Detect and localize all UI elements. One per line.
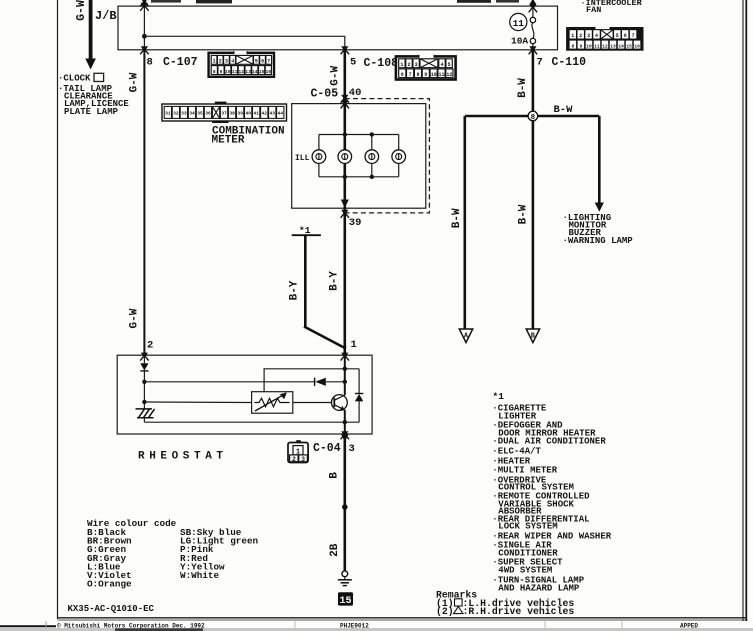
connector mark rheostat pin 3 [341, 431, 349, 439]
svg-text:31: 31 [165, 111, 171, 117]
connector mark x=144.4 top [140, 0, 148, 6]
svg-text:32: 32 [173, 111, 179, 117]
wire B-Y from *1 [304, 235, 307, 327]
svg-text:4: 4 [440, 62, 443, 68]
svg-text:11: 11 [513, 18, 525, 29]
svg-text:B-W: B-W [518, 204, 530, 224]
svg-text:2: 2 [292, 456, 296, 463]
ground symbol bottom [338, 571, 352, 586]
node dot splice [342, 504, 348, 510]
svg-text:13: 13 [610, 43, 616, 49]
combination meter dashed box (RH drive) [345, 99, 430, 213]
connector mark C-05 entry [341, 95, 349, 103]
svg-text:*1: *1 [299, 225, 311, 236]
svg-text:12: 12 [602, 43, 608, 49]
svg-text:C-05: C-05 [311, 88, 339, 101]
svg-text:41: 41 [253, 111, 259, 117]
svg-text:8: 8 [213, 69, 216, 75]
illumination bulb 4 [392, 150, 406, 164]
svg-text:C-107: C-107 [163, 56, 198, 69]
connector mark x=344.8 J/B bottom [341, 46, 349, 54]
svg-text:5: 5 [350, 57, 356, 69]
svg-text:B-W: B-W [517, 78, 529, 98]
rheostat box [117, 355, 372, 434]
page bottom border double [58, 617, 747, 619]
svg-text:7: 7 [267, 59, 270, 65]
svg-text:3: 3 [225, 59, 228, 65]
svg-text:16: 16 [266, 69, 272, 75]
top fragment block right [457, 0, 491, 3]
svg-text:KX35-AC-Q1010-EC: KX35-AC-Q1010-EC [68, 604, 155, 614]
connector mark rheostat pin 2 [140, 353, 148, 361]
svg-text:7: 7 [632, 33, 635, 39]
svg-text:C-110: C-110 [552, 56, 587, 69]
svg-text:9: 9 [580, 43, 583, 49]
svg-text:12: 12 [239, 69, 245, 75]
remarks square symbol [455, 599, 463, 606]
svg-text:AND HAZARD LAMP: AND HAZARD LAMP [498, 583, 580, 593]
bulb rail top [319, 134, 399, 136]
wire B below rheostat [343, 434, 346, 571]
svg-text:4: 4 [595, 33, 598, 39]
B-W distribution bar [465, 115, 600, 118]
svg-text:7: 7 [409, 72, 412, 78]
wire var-res output to transistor base [293, 402, 335, 404]
node dot J/B [142, 34, 147, 39]
wire lower internal to variable resistor [144, 401, 251, 404]
svg-text:3: 3 [587, 33, 590, 39]
resistor (hatched) to ground rail [136, 409, 155, 418]
remarks triangle symbol [454, 607, 463, 614]
svg-text:8: 8 [147, 57, 153, 69]
svg-text:2: 2 [407, 62, 410, 68]
svg-text:44: 44 [278, 111, 284, 117]
svg-text:36: 36 [205, 111, 211, 117]
svg-text:© Mitsubishi Motors Corporatio: © Mitsubishi Motors Corporation Dec. 199… [57, 622, 205, 629]
svg-text:11: 11 [438, 72, 444, 78]
diode D2 (left pointing) [314, 378, 316, 386]
svg-text:16: 16 [634, 43, 640, 49]
svg-text:13: 13 [245, 69, 251, 75]
splice circle 8 [528, 111, 538, 121]
node clock list [58, 74, 129, 117]
svg-text:39: 39 [349, 217, 362, 229]
svg-text:PHJE9012: PHJE9012 [340, 622, 369, 629]
svg-text:O:Orange: O:Orange [87, 579, 132, 590]
svg-text:1: 1 [571, 33, 574, 39]
wire through meter bulbs [343, 104, 346, 209]
svg-text:*1: *1 [493, 391, 505, 402]
svg-text:B-Y: B-Y [328, 271, 340, 291]
meter exit arrow [341, 200, 349, 209]
svg-text:·MULTI METER: ·MULTI METER [492, 466, 557, 476]
svg-text:3: 3 [349, 443, 355, 455]
svg-text:C-108: C-108 [364, 57, 399, 70]
node *1 branch T-bar [292, 234, 321, 236]
fuse number circle 11 [510, 13, 527, 30]
connector block C-110 [566, 26, 643, 51]
svg-text::R.H.drive vehicles: :R.H.drive vehicles [463, 606, 575, 617]
svg-text:37: 37 [221, 111, 227, 117]
wire B-W left branch [463, 116, 466, 329]
svg-text:G-W: G-W [329, 66, 341, 86]
svg-text:J/B: J/B [95, 9, 117, 23]
node dot main 381 [343, 380, 347, 384]
fuse 11 10A (x=532.9) [532, 0, 534, 6]
svg-text:10: 10 [225, 69, 231, 75]
wire C-102 down to C-107 (x=144.4) [143, 0, 145, 6]
svg-text:1: 1 [400, 62, 403, 68]
node dot left lower [142, 400, 146, 404]
svg-text:1: 1 [213, 59, 216, 65]
svg-text:2: 2 [219, 59, 222, 65]
svg-text:7: 7 [537, 57, 543, 69]
illumination bulb 2 [338, 150, 352, 164]
svg-text:(2): (2) [436, 606, 454, 617]
page left border [57, 0, 59, 619]
svg-text:10: 10 [586, 43, 592, 49]
connector block C-108 [396, 55, 456, 80]
wire colour code table [87, 518, 259, 590]
svg-text:12: 12 [446, 72, 452, 78]
svg-text:APPED: APPED [680, 622, 698, 629]
svg-text:3: 3 [415, 62, 418, 68]
illumination bulb 1 [312, 150, 326, 164]
svg-text:11: 11 [232, 69, 238, 75]
ground ref 15 black box [338, 592, 353, 605]
svg-text:34: 34 [189, 111, 195, 117]
remarks note [436, 590, 574, 617]
svg-text:ILL: ILL [295, 154, 310, 163]
svg-text:10A: 10A [511, 35, 528, 46]
svg-text:14: 14 [618, 43, 624, 49]
bulb stubs [318, 135, 320, 151]
svg-text:15: 15 [626, 43, 632, 49]
svg-text:2: 2 [147, 340, 153, 352]
svg-text:5: 5 [448, 62, 451, 68]
bottom internal rail [144, 421, 359, 423]
variable resistor box [252, 392, 293, 414]
wire upper internal with diode D2 [144, 381, 314, 383]
svg-text:4: 4 [231, 59, 234, 65]
svg-text:·WARNING LAMP: ·WARNING LAMP [563, 236, 634, 246]
svg-text:2: 2 [579, 33, 582, 39]
svg-text:5: 5 [616, 33, 619, 39]
svg-text:G-W: G-W [129, 72, 141, 92]
svg-text:14: 14 [252, 69, 258, 75]
svg-text:1: 1 [351, 339, 357, 351]
wire from var-res top to rail [264, 369, 359, 392]
svg-text:10: 10 [431, 72, 437, 78]
svg-text:LOCK SYSTEM: LOCK SYSTEM [498, 522, 557, 532]
transistor Q1 [332, 395, 348, 411]
svg-text:33: 33 [181, 111, 187, 117]
svg-text:3: 3 [301, 456, 305, 463]
wire arrow to lighting monitor [598, 116, 601, 204]
variable resistor zigzag [255, 398, 290, 406]
svg-text:RHEOSTAT: RHEOSTAT [138, 451, 228, 463]
page right border double [742, 0, 744, 621]
svg-text:8: 8 [572, 43, 575, 49]
svg-text:B-W: B-W [451, 208, 463, 228]
node dot left upper [142, 380, 146, 384]
connector mark rheostat pin 1 [341, 353, 349, 361]
svg-text:43: 43 [270, 111, 276, 117]
node lighting monitor buzzer list [563, 213, 634, 246]
svg-text:15: 15 [259, 69, 265, 75]
svg-text:·DUAL AIR CONDITIONER: ·DUAL AIR CONDITIONER [492, 437, 606, 447]
svg-text:8: 8 [531, 114, 536, 122]
bottom page cut strip [0, 625, 56, 627]
junction block J/B box [118, 6, 558, 50]
ground triangle B [526, 329, 539, 343]
svg-text:B-W: B-W [554, 104, 574, 116]
node dots on rails [343, 132, 347, 136]
bulb rail bottom [319, 176, 399, 178]
svg-text:42: 42 [262, 111, 268, 117]
svg-text:·ELC-4A/T: ·ELC-4A/T [492, 447, 541, 457]
diode D1 (below pin 2) [143, 355, 145, 363]
svg-text:9: 9 [424, 72, 427, 78]
svg-text:W:White: W:White [180, 570, 219, 581]
wire inside J/B from node to pin 5 [144, 36, 344, 50]
node dot main 368.8 [343, 367, 347, 371]
connector C-04 symbol [288, 440, 308, 463]
svg-text:B: B [328, 472, 340, 479]
ground triangle A [459, 329, 472, 343]
connector block C-107 [209, 51, 274, 77]
svg-text:38: 38 [229, 111, 235, 117]
svg-text:39: 39 [237, 111, 243, 117]
svg-text:METER: METER [212, 134, 245, 146]
combination meter connector strip 31-44 [162, 102, 287, 123]
svg-text:C-04: C-04 [313, 442, 341, 455]
svg-text:·CLOCK: ·CLOCK [58, 74, 91, 84]
clock square symbol [94, 73, 104, 81]
svg-text:40: 40 [245, 111, 251, 117]
svg-text:6: 6 [401, 72, 404, 78]
wire main through rheostat [344, 355, 346, 395]
wire G-W from J/B pin 5 down to C-05 pin 40 (x=344.8) [343, 50, 346, 104]
combination meter box C-05 solid [292, 104, 426, 209]
svg-text:2B: 2B [329, 543, 341, 557]
svg-text:11: 11 [594, 43, 600, 49]
svg-text:6: 6 [624, 33, 627, 39]
svg-text:9: 9 [220, 69, 223, 75]
svg-text:4WD SYSTEM: 4WD SYSTEM [498, 565, 552, 575]
svg-text:PLATE LAMP: PLATE LAMP [64, 107, 119, 117]
svg-text:6: 6 [261, 59, 264, 65]
wire B-Y meter to rheostat (x=344.8) [343, 208, 346, 355]
svg-text:G-W: G-W [75, 0, 88, 21]
wire G-W arrow to clock/tail lamp [89, 0, 93, 60]
svg-text:B-Y: B-Y [288, 280, 300, 300]
svg-text:15: 15 [339, 596, 351, 607]
svg-text:40: 40 [349, 87, 362, 99]
svg-text:35: 35 [197, 111, 203, 117]
illumination bulb 3 [365, 150, 379, 164]
svg-text:G-W: G-W [129, 308, 141, 328]
svg-text:FAN: FAN [586, 5, 601, 15]
svg-text:5: 5 [255, 59, 258, 65]
top fragment C-102 text [151, 0, 181, 3]
node dot main 422 [343, 420, 347, 424]
svg-text:8: 8 [416, 72, 419, 78]
wire B-W from C-110 down (x=532.9) [532, 50, 535, 329]
diode D3 branch (right, up-pointing) [358, 369, 360, 394]
